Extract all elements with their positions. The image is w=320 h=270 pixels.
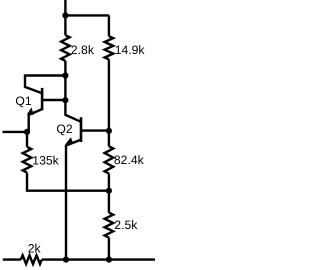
svg-text:2.8k: 2.8k xyxy=(71,43,95,57)
transistor Q2 base bar xyxy=(80,117,83,142)
svg-text:Q2: Q2 xyxy=(56,122,72,136)
svg-text:14.9k: 14.9k xyxy=(115,43,146,57)
node: Q2 base junction xyxy=(106,128,112,134)
wire: left branch middle + Q2 collector lead xyxy=(65,61,81,122)
wire: Q1 base to left branch node xyxy=(42,99,65,101)
wire: Q1 collector to left branch node xyxy=(25,76,65,94)
svg-text:2k: 2k xyxy=(28,242,42,256)
wire: right branch upper lead xyxy=(108,15,110,36)
node: Q1 base junction xyxy=(62,97,68,103)
svg-text:2.5k: 2.5k xyxy=(114,218,138,232)
wire: top supply stub and left branch upper lead xyxy=(64,0,66,35)
transistor Q1 emitter arrow (PNP) xyxy=(27,107,34,115)
wire: right branch lower lead xyxy=(108,238,110,260)
wire: 135k lower lead and horizontal to right branch xyxy=(27,173,109,191)
wire: 135k upper lead xyxy=(26,132,28,147)
node: Q1 emitter / 135k junction xyxy=(24,129,30,135)
resistor 14.9k xyxy=(105,36,114,59)
resistor 2.8k xyxy=(61,35,70,61)
resistor 82.4k xyxy=(105,146,114,173)
node: top rail junction xyxy=(62,12,68,18)
resistor 135k xyxy=(23,147,32,173)
wire: right branch mid lead xyxy=(108,59,110,146)
node: bottom rail Q2 emitter junction xyxy=(63,257,69,263)
wire: Q1 emitter lead xyxy=(29,109,42,131)
wire: bottom rail right of 2k xyxy=(42,258,155,260)
wire: bottom rail left of 2k xyxy=(3,258,21,260)
wire: top horizontal rail xyxy=(65,14,109,16)
wire: right branch between 82.4k and 2.5k xyxy=(108,174,110,213)
resistor 2.5k xyxy=(105,213,114,238)
wire: input wire to Q1 emitter node xyxy=(3,131,28,133)
node: Q1 collector junction xyxy=(62,72,68,78)
wire: Q2 emitter lead down to bottom rail xyxy=(66,140,81,260)
transistor Q1 base bar xyxy=(41,88,44,110)
transistor Q2 emitter arrow (NPN) xyxy=(65,137,73,145)
svg-text:Q1: Q1 xyxy=(15,94,31,108)
svg-text:135k: 135k xyxy=(32,154,59,168)
node: bottom rail right junction xyxy=(106,257,112,263)
svg-text:82.4k: 82.4k xyxy=(114,153,145,167)
node: 82.4k / 2.5k junction xyxy=(106,188,112,194)
wire: Q2 base to right branch node xyxy=(81,129,109,131)
resistor 2k xyxy=(21,255,42,264)
